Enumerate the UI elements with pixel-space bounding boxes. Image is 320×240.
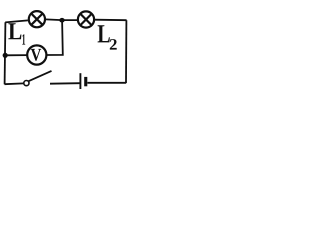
wire between lamps <box>46 18 77 21</box>
label L2 letter L <box>98 25 110 42</box>
wire bottom-right horizontal <box>87 82 126 84</box>
switch pivot circle <box>24 81 29 86</box>
battery thin long plate (positive) <box>79 73 81 89</box>
wire top-right horizontal <box>94 19 127 22</box>
wire right vertical <box>125 20 127 83</box>
lamp L1 <box>29 11 45 27</box>
node junction top (dot) <box>59 18 64 23</box>
battery thick short plate (negative) <box>84 77 87 86</box>
wire voltmeter branch left <box>5 54 27 56</box>
label L1 subscript 1 <box>22 34 25 44</box>
lamp L2 <box>78 11 94 27</box>
voltmeter letter V <box>31 49 42 61</box>
node junction left (dot) <box>3 53 8 58</box>
wire battery to switch <box>50 82 80 85</box>
wire voltmeter branch right + vertical up <box>46 20 63 55</box>
voltmeter circle <box>27 45 46 64</box>
wire switch to bottom-left corner <box>5 82 24 85</box>
wire top-left horizontal <box>5 20 28 22</box>
label L2 subscript 2 <box>110 39 117 50</box>
switch lever <box>29 71 52 81</box>
wire left vertical <box>4 22 7 84</box>
label L1 letter L <box>8 23 21 39</box>
